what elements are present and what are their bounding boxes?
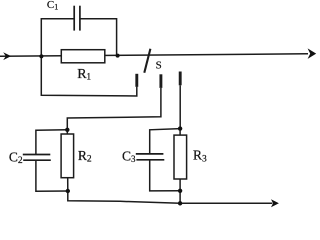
svg-text:S: S [156, 59, 162, 71]
svg-text:C1: C1 [47, 0, 58, 11]
